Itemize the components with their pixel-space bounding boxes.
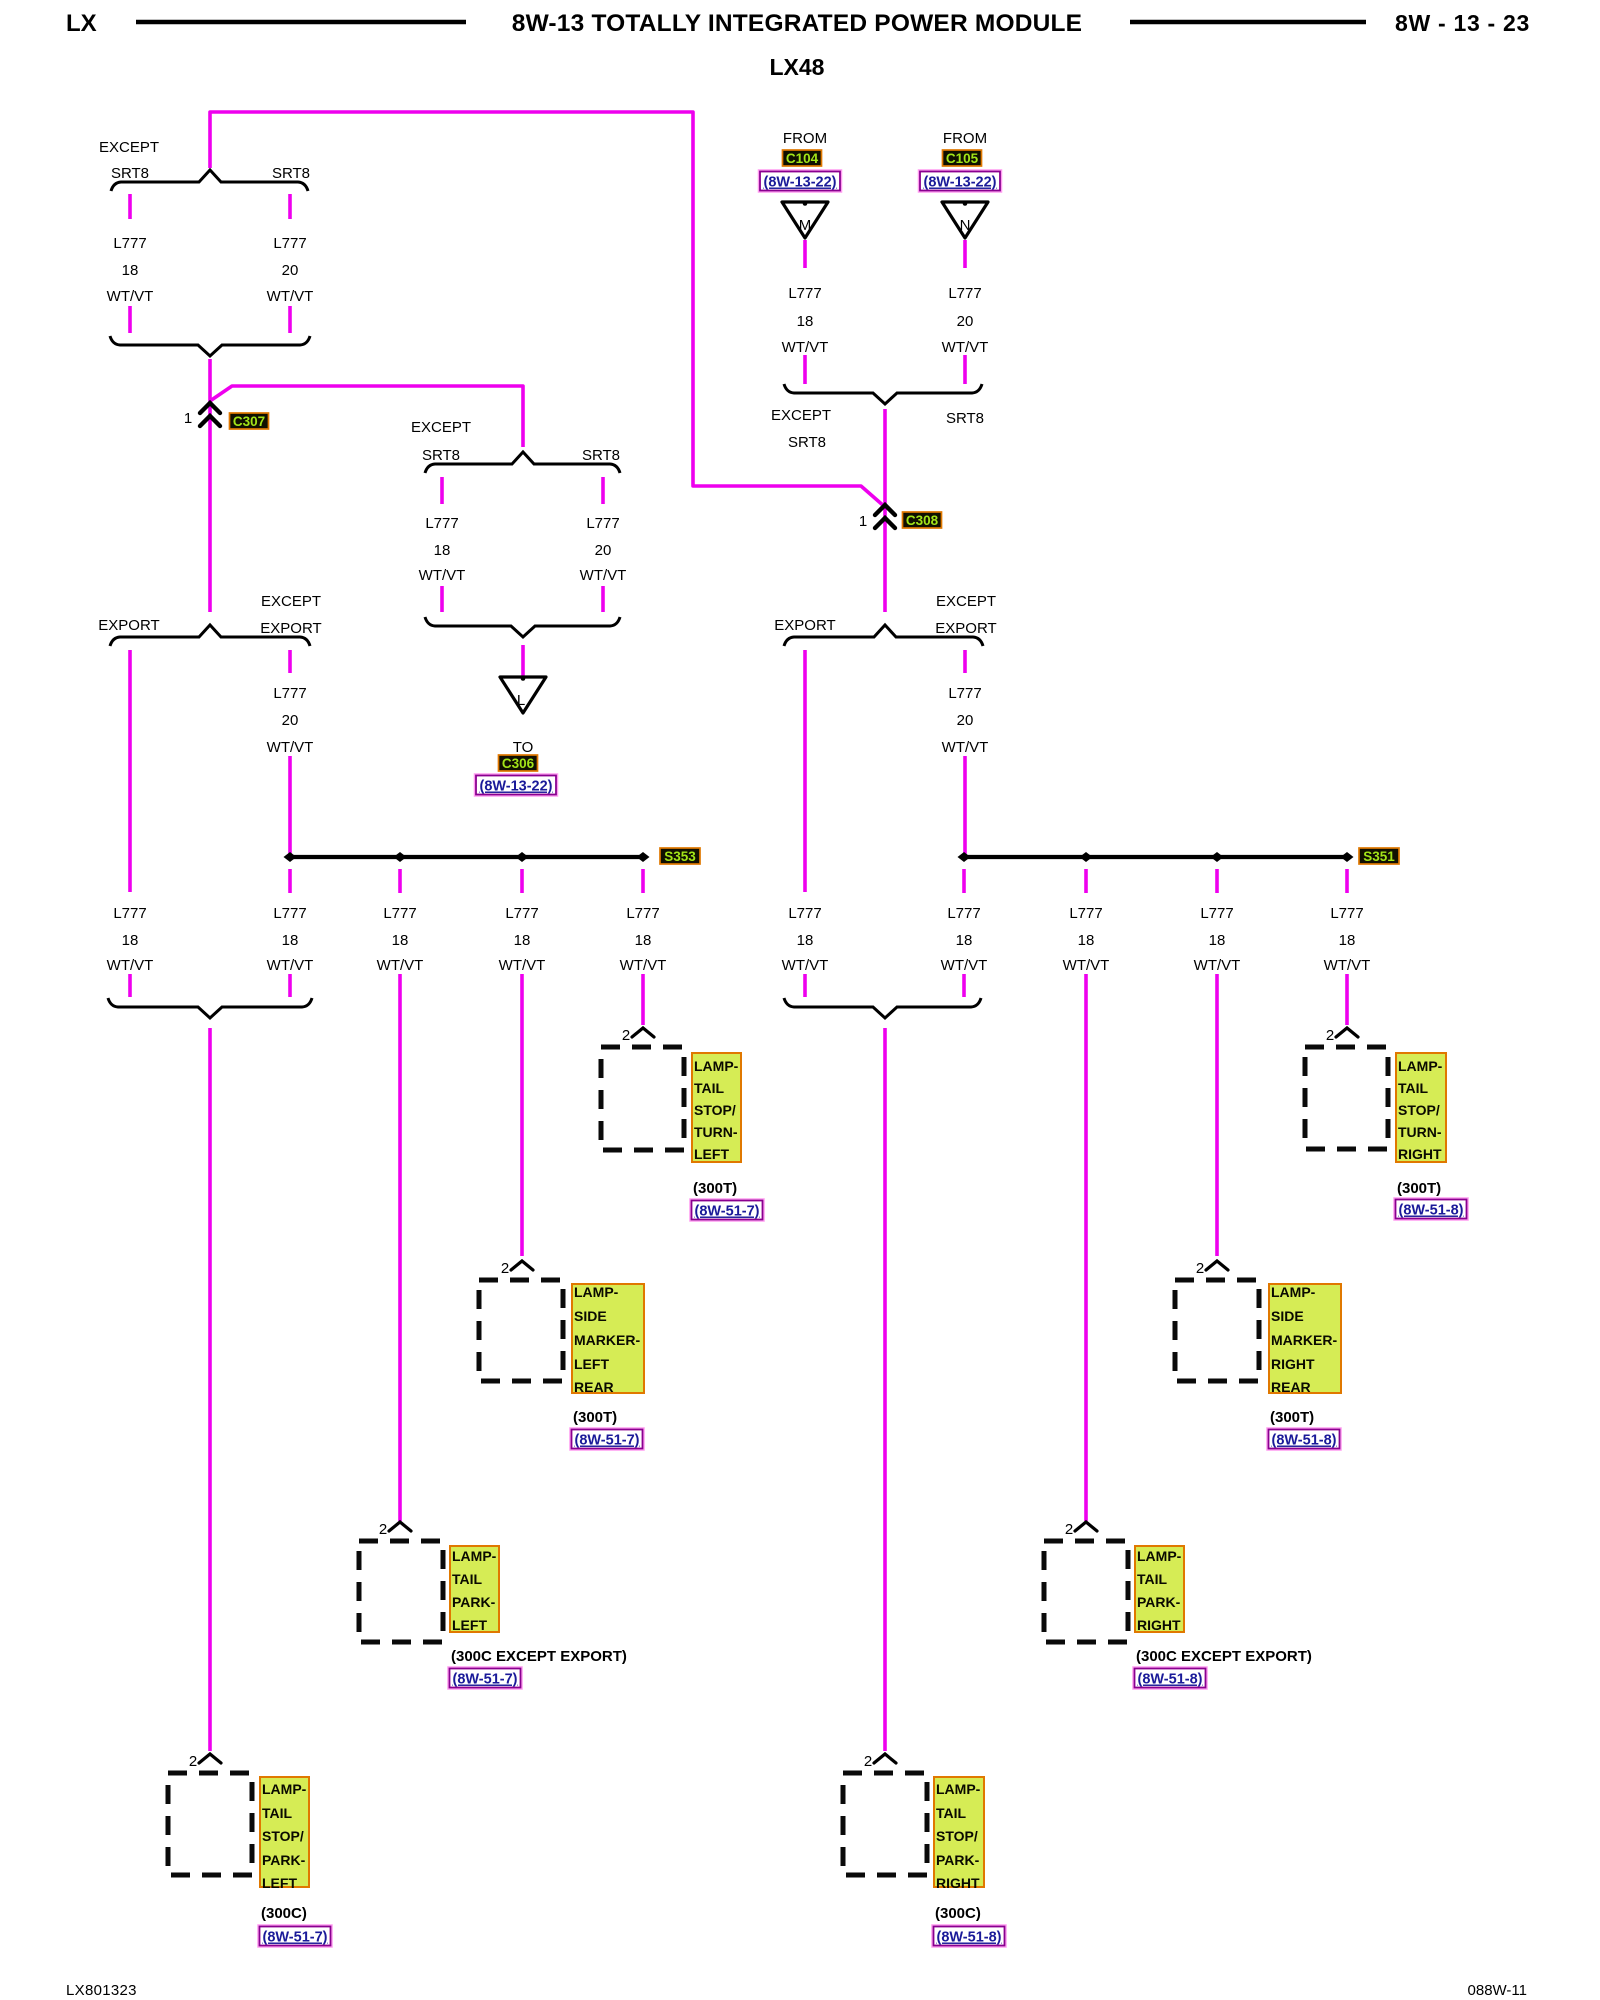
svg-text:18: 18 bbox=[797, 313, 814, 330]
svg-text:WT/VT: WT/VT bbox=[1194, 957, 1241, 974]
svg-text:(8W-13-22): (8W-13-22) bbox=[479, 779, 552, 795]
svg-text:L777: L777 bbox=[1069, 905, 1102, 922]
svg-text:EXCEPT: EXCEPT bbox=[411, 419, 471, 436]
svg-text:TURN-: TURN- bbox=[694, 1124, 738, 1140]
svg-text:EXCEPT: EXCEPT bbox=[771, 407, 831, 424]
svg-text:20: 20 bbox=[957, 313, 974, 330]
svg-text:M: M bbox=[799, 217, 812, 234]
svg-text:SRT8: SRT8 bbox=[111, 165, 149, 182]
svg-text:L777: L777 bbox=[626, 905, 659, 922]
svg-text:2: 2 bbox=[189, 1753, 197, 1770]
svg-text:(8W-51-7): (8W-51-7) bbox=[695, 1204, 760, 1220]
svg-text:MARKER-: MARKER- bbox=[574, 1332, 640, 1348]
svg-text:WT/VT: WT/VT bbox=[941, 957, 988, 974]
svg-text:WT/VT: WT/VT bbox=[267, 739, 314, 756]
svg-text:WT/VT: WT/VT bbox=[377, 957, 424, 974]
svg-text:LX801323: LX801323 bbox=[66, 1982, 137, 1999]
svg-text:1: 1 bbox=[859, 513, 867, 530]
svg-text:1: 1 bbox=[184, 410, 192, 427]
svg-text:WT/VT: WT/VT bbox=[1063, 957, 1110, 974]
svg-text:(300C EXCEPT EXPORT): (300C EXCEPT EXPORT) bbox=[1136, 1648, 1312, 1665]
svg-text:RIGHT: RIGHT bbox=[1137, 1617, 1181, 1633]
svg-text:L777: L777 bbox=[1330, 905, 1363, 922]
svg-text:TAIL: TAIL bbox=[1398, 1080, 1429, 1096]
svg-text:8W - 13 - 23: 8W - 13 - 23 bbox=[1395, 10, 1530, 36]
svg-text:(300T): (300T) bbox=[1270, 1409, 1314, 1426]
svg-text:RIGHT: RIGHT bbox=[1271, 1356, 1315, 1372]
svg-text:18: 18 bbox=[1078, 932, 1095, 949]
svg-text:S351: S351 bbox=[1363, 849, 1395, 864]
svg-text:(300T): (300T) bbox=[573, 1409, 617, 1426]
svg-text:(8W-51-7): (8W-51-7) bbox=[263, 1930, 328, 1946]
svg-text:L777: L777 bbox=[113, 905, 146, 922]
svg-text:SIDE: SIDE bbox=[574, 1308, 607, 1324]
svg-text:WT/VT: WT/VT bbox=[782, 957, 829, 974]
svg-text:L777: L777 bbox=[788, 285, 821, 302]
svg-text:EXPORT: EXPORT bbox=[260, 620, 321, 637]
svg-text:L777: L777 bbox=[948, 285, 981, 302]
svg-text:18: 18 bbox=[1339, 932, 1356, 949]
svg-text:L777: L777 bbox=[273, 905, 306, 922]
svg-text:WT/VT: WT/VT bbox=[419, 567, 466, 584]
svg-text:L777: L777 bbox=[383, 905, 416, 922]
svg-text:LEFT: LEFT bbox=[262, 1875, 297, 1891]
svg-text:EXPORT: EXPORT bbox=[774, 617, 835, 634]
svg-text:18: 18 bbox=[122, 932, 139, 949]
svg-text:C104: C104 bbox=[786, 151, 819, 166]
svg-text:LAMP-: LAMP- bbox=[1398, 1058, 1443, 1074]
svg-text:L777: L777 bbox=[1200, 905, 1233, 922]
svg-text:TO: TO bbox=[513, 739, 534, 756]
svg-text:C306: C306 bbox=[502, 756, 535, 771]
svg-text:FROM: FROM bbox=[943, 130, 987, 147]
svg-text:MARKER-: MARKER- bbox=[1271, 1332, 1337, 1348]
svg-text:2: 2 bbox=[1065, 1521, 1073, 1538]
svg-text:18: 18 bbox=[392, 932, 409, 949]
svg-text:RIGHT: RIGHT bbox=[1398, 1146, 1442, 1162]
svg-text:2: 2 bbox=[864, 1753, 872, 1770]
svg-text:WT/VT: WT/VT bbox=[499, 957, 546, 974]
svg-text:L777: L777 bbox=[948, 685, 981, 702]
svg-text:STOP/: STOP/ bbox=[1398, 1102, 1440, 1118]
svg-text:2: 2 bbox=[501, 1260, 509, 1277]
svg-text:LEFT: LEFT bbox=[452, 1617, 487, 1633]
svg-text:WT/VT: WT/VT bbox=[942, 739, 989, 756]
svg-text:LX48: LX48 bbox=[770, 54, 825, 80]
svg-text:8W-13 TOTALLY INTEGRATED POWER: 8W-13 TOTALLY INTEGRATED POWER MODULE bbox=[512, 10, 1082, 37]
svg-text:(8W-13-22): (8W-13-22) bbox=[923, 175, 996, 191]
svg-text:TAIL: TAIL bbox=[694, 1080, 725, 1096]
svg-text:18: 18 bbox=[122, 262, 139, 279]
svg-text:L777: L777 bbox=[788, 905, 821, 922]
svg-text:L777: L777 bbox=[505, 905, 538, 922]
svg-text:20: 20 bbox=[282, 262, 299, 279]
svg-text:PARK-: PARK- bbox=[262, 1852, 306, 1868]
svg-text:WT/VT: WT/VT bbox=[107, 288, 154, 305]
svg-text:EXPORT: EXPORT bbox=[935, 620, 996, 637]
svg-text:18: 18 bbox=[1209, 932, 1226, 949]
svg-text:WT/VT: WT/VT bbox=[620, 957, 667, 974]
svg-text:20: 20 bbox=[282, 712, 299, 729]
svg-text:L777: L777 bbox=[273, 235, 306, 252]
svg-text:C105: C105 bbox=[946, 151, 979, 166]
svg-text:LAMP-: LAMP- bbox=[574, 1284, 619, 1300]
svg-text:FROM: FROM bbox=[783, 130, 827, 147]
svg-text:PARK-: PARK- bbox=[452, 1594, 496, 1610]
svg-text:SRT8: SRT8 bbox=[946, 410, 984, 427]
svg-text:18: 18 bbox=[797, 932, 814, 949]
svg-text:TAIL: TAIL bbox=[1137, 1571, 1168, 1587]
svg-text:20: 20 bbox=[957, 712, 974, 729]
svg-text:WT/VT: WT/VT bbox=[267, 288, 314, 305]
svg-text:LAMP-: LAMP- bbox=[1271, 1284, 1316, 1300]
svg-text:SRT8: SRT8 bbox=[582, 447, 620, 464]
svg-text:SRT8: SRT8 bbox=[422, 447, 460, 464]
svg-text:2: 2 bbox=[1326, 1027, 1334, 1044]
svg-text:20: 20 bbox=[595, 542, 612, 559]
svg-text:2: 2 bbox=[1196, 1260, 1204, 1277]
svg-text:(8W-51-8): (8W-51-8) bbox=[937, 1930, 1002, 1946]
svg-text:(8W-51-8): (8W-51-8) bbox=[1399, 1203, 1464, 1219]
svg-text:2: 2 bbox=[622, 1027, 630, 1044]
svg-text:2: 2 bbox=[379, 1521, 387, 1538]
svg-text:LX: LX bbox=[66, 10, 97, 37]
svg-text:EXCEPT: EXCEPT bbox=[261, 593, 321, 610]
svg-text:S353: S353 bbox=[664, 849, 696, 864]
svg-text:C307: C307 bbox=[233, 414, 265, 429]
svg-text:LAMP-: LAMP- bbox=[452, 1548, 497, 1564]
svg-text:C308: C308 bbox=[906, 513, 939, 528]
svg-text:REAR: REAR bbox=[1271, 1379, 1311, 1395]
svg-text:LAMP-: LAMP- bbox=[694, 1058, 739, 1074]
svg-text:SRT8: SRT8 bbox=[788, 434, 826, 451]
svg-text:(8W-51-8): (8W-51-8) bbox=[1138, 1672, 1203, 1688]
svg-text:REAR: REAR bbox=[574, 1379, 614, 1395]
svg-text:EXCEPT: EXCEPT bbox=[936, 593, 996, 610]
svg-text:RIGHT: RIGHT bbox=[936, 1875, 980, 1891]
svg-text:LEFT: LEFT bbox=[694, 1146, 729, 1162]
svg-text:(300T): (300T) bbox=[693, 1180, 737, 1197]
svg-text:SIDE: SIDE bbox=[1271, 1308, 1304, 1324]
svg-text:WT/VT: WT/VT bbox=[782, 339, 829, 356]
svg-text:PARK-: PARK- bbox=[936, 1852, 980, 1868]
svg-text:L777: L777 bbox=[113, 235, 146, 252]
svg-text:L: L bbox=[517, 692, 525, 709]
svg-text:(300C EXCEPT EXPORT): (300C EXCEPT EXPORT) bbox=[451, 1648, 627, 1665]
svg-text:(300T): (300T) bbox=[1397, 1180, 1441, 1197]
svg-text:WT/VT: WT/VT bbox=[580, 567, 627, 584]
svg-text:18: 18 bbox=[956, 932, 973, 949]
svg-text:STOP/: STOP/ bbox=[936, 1828, 978, 1844]
svg-text:L777: L777 bbox=[273, 685, 306, 702]
svg-text:18: 18 bbox=[282, 932, 299, 949]
svg-text:WT/VT: WT/VT bbox=[1324, 957, 1371, 974]
svg-text:(8W-13-22): (8W-13-22) bbox=[763, 175, 836, 191]
svg-text:18: 18 bbox=[635, 932, 652, 949]
svg-text:WT/VT: WT/VT bbox=[267, 957, 314, 974]
svg-text:TURN-: TURN- bbox=[1398, 1124, 1442, 1140]
svg-text:PARK-: PARK- bbox=[1137, 1594, 1181, 1610]
svg-text:STOP/: STOP/ bbox=[694, 1102, 736, 1118]
svg-text:WT/VT: WT/VT bbox=[942, 339, 989, 356]
svg-text:WT/VT: WT/VT bbox=[107, 957, 154, 974]
svg-text:TAIL: TAIL bbox=[262, 1805, 293, 1821]
svg-text:088W-11: 088W-11 bbox=[1468, 1982, 1527, 1999]
svg-text:LAMP-: LAMP- bbox=[1137, 1548, 1182, 1564]
svg-text:EXCEPT: EXCEPT bbox=[99, 139, 159, 156]
svg-text:TAIL: TAIL bbox=[452, 1571, 483, 1587]
svg-text:18: 18 bbox=[434, 542, 451, 559]
svg-text:(8W-51-8): (8W-51-8) bbox=[1272, 1433, 1337, 1449]
svg-text:L777: L777 bbox=[947, 905, 980, 922]
svg-text:18: 18 bbox=[514, 932, 531, 949]
svg-text:(300C): (300C) bbox=[261, 1905, 307, 1922]
svg-text:LAMP-: LAMP- bbox=[262, 1781, 307, 1797]
svg-text:TAIL: TAIL bbox=[936, 1805, 967, 1821]
svg-text:L777: L777 bbox=[586, 515, 619, 532]
svg-text:(8W-51-7): (8W-51-7) bbox=[453, 1672, 518, 1688]
svg-text:LAMP-: LAMP- bbox=[936, 1781, 981, 1797]
svg-text:SRT8: SRT8 bbox=[272, 165, 310, 182]
svg-text:L777: L777 bbox=[425, 515, 458, 532]
svg-text:EXPORT: EXPORT bbox=[98, 617, 159, 634]
svg-text:N: N bbox=[960, 217, 971, 234]
svg-text:STOP/: STOP/ bbox=[262, 1828, 304, 1844]
svg-text:(8W-51-7): (8W-51-7) bbox=[575, 1433, 640, 1449]
svg-text:LEFT: LEFT bbox=[574, 1356, 609, 1372]
svg-text:(300C): (300C) bbox=[935, 1905, 981, 1922]
